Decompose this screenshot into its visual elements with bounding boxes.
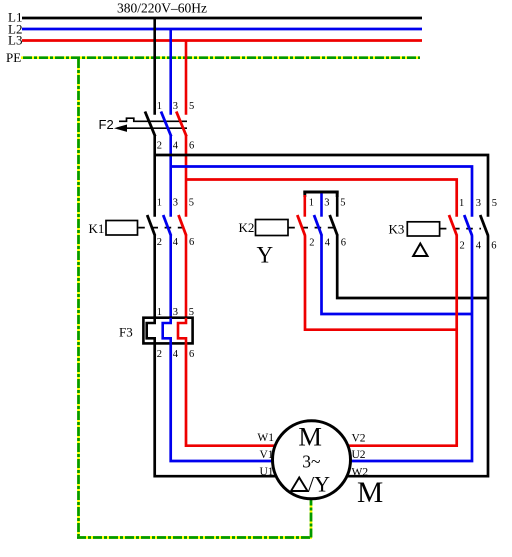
breaker F2 trip arrow — [114, 125, 127, 132]
svg-text:K2: K2 — [239, 220, 255, 235]
svg-text:6: 6 — [491, 240, 496, 251]
wire rail L1 to K3 — [155, 155, 488, 217]
wire L1 drop to F2 — [153, 18, 156, 115]
svg-text:2: 2 — [157, 237, 162, 248]
breaker F2 pole 3-4 contact — [161, 112, 171, 137]
svg-text:5: 5 — [189, 198, 194, 209]
svg-text:4: 4 — [325, 237, 331, 248]
contactor K1 pole 3-4 contact — [163, 215, 171, 236]
svg-text:5: 5 — [189, 101, 194, 112]
svg-text:6: 6 — [341, 237, 346, 248]
svg-text:1: 1 — [459, 198, 464, 209]
contactor K2 pole 1-2 contact — [297, 215, 305, 236]
svg-text:3: 3 — [324, 198, 329, 209]
wire rail L2 to K3 — [171, 167, 472, 217]
wire K2 pole 2 to node V2 — [305, 236, 457, 330]
bus PE — [21, 56, 420, 59]
svg-text:W1: W1 — [257, 432, 274, 444]
svg-text:U2: U2 — [352, 449, 366, 461]
svg-text:4: 4 — [476, 240, 482, 251]
svg-text:V1: V1 — [259, 449, 273, 461]
contactor K1 pole 5-6 contact — [179, 215, 187, 236]
svg-text:1: 1 — [157, 101, 162, 112]
wire PE drop — [77, 59, 80, 538]
svg-text:1: 1 — [157, 307, 162, 318]
wire K1 to F3 phase L2 — [169, 236, 172, 319]
svg-text:Y: Y — [257, 243, 274, 268]
wire F3 to motor U1 — [155, 343, 311, 476]
overload F3 box — [143, 318, 192, 344]
contactor K2 pole 3-4 contact — [314, 215, 322, 236]
svg-text:/Y: /Y — [308, 472, 330, 497]
svg-text:M: M — [298, 422, 322, 452]
wire K2 pole 6 to node W2 — [337, 236, 488, 299]
svg-text:M: M — [357, 477, 383, 509]
wire bridge to K2 pole 5 — [336, 191, 339, 217]
wire F2 to K1 phase L1 — [153, 136, 156, 217]
wire F2 to K1 phase L3 — [185, 136, 188, 217]
svg-text:4: 4 — [173, 237, 179, 248]
svg-text:3: 3 — [476, 198, 481, 209]
wire K3 pole 2 to motor V2 — [312, 236, 457, 446]
svg-text:L3: L3 — [8, 33, 22, 48]
contactor K3 linkage — [440, 228, 481, 230]
svg-text:2: 2 — [309, 237, 314, 248]
contactor K3 coil box — [407, 222, 439, 236]
svg-text:F3: F3 — [119, 325, 133, 340]
contactor K2 coil box — [256, 220, 289, 236]
wire rail L3 to K3 — [186, 180, 457, 217]
breaker F2 trip bar — [117, 127, 187, 129]
wire K3 pole 6 to motor W2 — [312, 236, 488, 477]
wire K3 pole 4 to motor U2 — [312, 236, 472, 462]
bus L1 — [22, 17, 422, 20]
wire K1 to F3 phase L3 — [185, 236, 188, 319]
contactor K2 pole 5-6 contact — [330, 215, 338, 236]
svg-text:6: 6 — [189, 141, 194, 152]
wire F2 to K1 phase L2 — [169, 136, 172, 217]
wire L3 drop to F2 — [185, 41, 188, 115]
overload F3 heater element L1 — [147, 318, 155, 344]
svg-text:5: 5 — [340, 198, 345, 209]
breaker F2 latch bar — [119, 118, 187, 121]
wire PE bottom run — [77, 536, 312, 539]
svg-text:3: 3 — [173, 198, 178, 209]
svg-text:F2: F2 — [99, 117, 114, 132]
contactor K1 coil box — [106, 221, 138, 236]
label delta symbol — [413, 244, 427, 257]
svg-text:6: 6 — [189, 237, 194, 248]
overload F3 heater element L2 — [163, 318, 171, 344]
contactor K2 star bridge bar — [303, 191, 338, 197]
svg-text:V2: V2 — [352, 433, 366, 445]
svg-text:380/220V–60Hz: 380/220V–60Hz — [117, 1, 207, 16]
svg-text:2: 2 — [157, 141, 162, 152]
svg-text:K1: K1 — [89, 221, 105, 236]
wire bridge to K2 pole 3 — [320, 193, 323, 216]
breaker F2 pole 5-6 contact — [176, 112, 186, 137]
contactor K3 pole 5-6 contact — [480, 215, 488, 236]
wire K1 to F3 phase L1 — [153, 236, 156, 319]
svg-text:2: 2 — [157, 349, 162, 360]
bus L3 — [22, 39, 422, 42]
svg-text:3~: 3~ — [302, 452, 320, 472]
svg-text:4: 4 — [173, 349, 179, 360]
svg-text:PE: PE — [6, 50, 21, 65]
contactor K1 linkage — [138, 227, 186, 229]
svg-text:1: 1 — [309, 198, 314, 209]
bus L2 — [22, 28, 422, 31]
motor M1 delta/Y label — [291, 472, 330, 497]
wire bridge to K2 pole 1 — [303, 195, 306, 217]
wire F3 to motor V1 — [171, 343, 311, 461]
svg-text:U1: U1 — [259, 466, 273, 478]
wire L2 drop to F2 — [169, 29, 172, 115]
svg-text:1: 1 — [157, 198, 162, 209]
contactor K1 pole 1-2 contact — [147, 215, 155, 236]
contactor K3 pole 3-4 contact — [464, 215, 472, 236]
wire F3 to motor W1 — [186, 343, 311, 445]
wire PE to motor frame — [310, 499, 313, 538]
wire K2 pole 4 to node U2 — [322, 236, 473, 315]
svg-text:2: 2 — [460, 240, 465, 251]
contactor K2 linkage — [288, 227, 337, 229]
contactor K3 pole 1-2 contact — [449, 215, 457, 236]
svg-text:3: 3 — [173, 307, 178, 318]
motor M1 body — [273, 421, 351, 499]
breaker F2 pole 1-2 contact — [145, 112, 155, 137]
svg-text:5: 5 — [492, 198, 497, 209]
svg-text:6: 6 — [189, 349, 194, 360]
overload F3 heater element L3 — [178, 318, 186, 344]
svg-text:3: 3 — [173, 101, 178, 112]
svg-text:5: 5 — [189, 307, 194, 318]
svg-text:K3: K3 — [389, 222, 405, 237]
svg-text:4: 4 — [173, 141, 179, 152]
